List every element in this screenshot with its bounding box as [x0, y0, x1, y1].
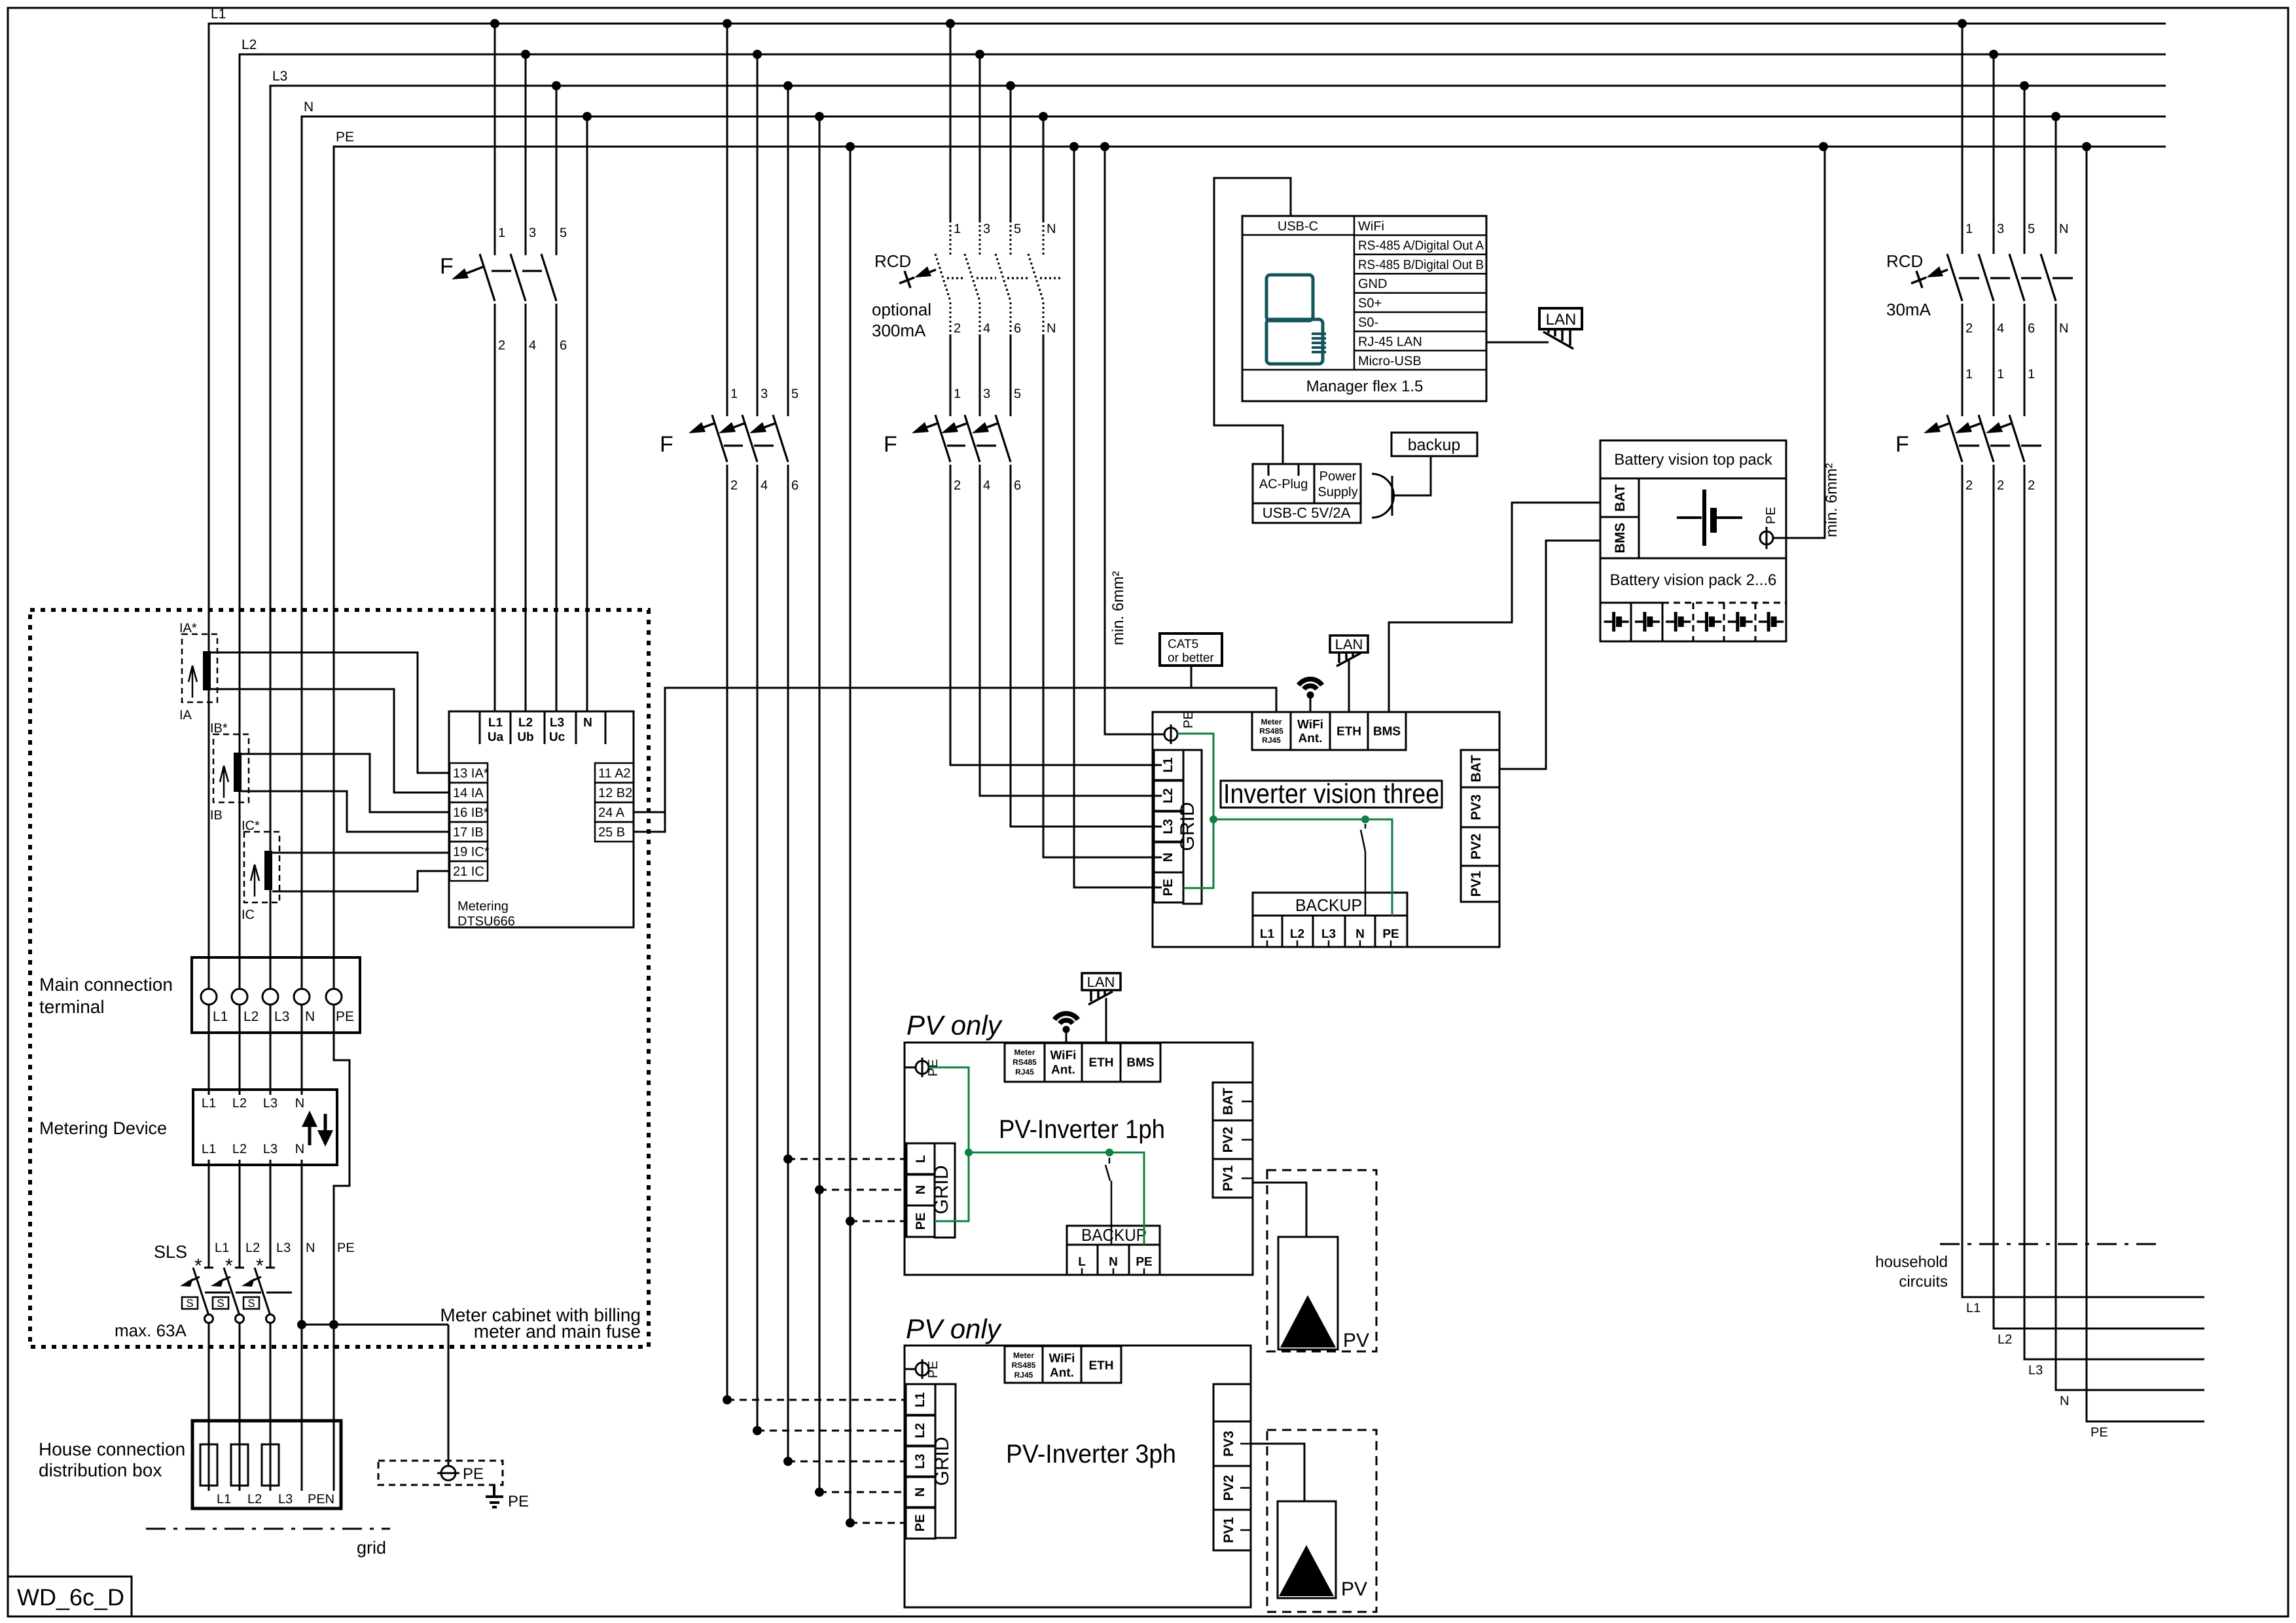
metering device stub [270, 1090, 272, 1095]
svg-text:RS485: RS485 [1013, 1058, 1037, 1067]
SLS output circle [266, 1315, 275, 1323]
svg-text:30mA: 30mA [1886, 300, 1931, 319]
svg-text:3: 3 [761, 387, 768, 401]
wire RCD1 L3 to F3 [1010, 336, 1012, 416]
PV3ph top cell [1213, 1384, 1251, 1421]
CT IC dashed box [244, 832, 279, 902]
svg-text:RJ-45 LAN: RJ-45 LAN [1358, 334, 1422, 349]
svg-text:L3: L3 [276, 1241, 291, 1255]
junction bond N [297, 1320, 306, 1329]
svg-text:RCD: RCD [874, 251, 911, 271]
PV3ph GRID PE cell [906, 1507, 935, 1539]
label Inverter vision three [1221, 781, 1442, 808]
svg-text:meter and main fuse: meter and main fuse [474, 1321, 641, 1342]
wire L1 bus [209, 24, 2166, 989]
svg-text:PE: PE [926, 1361, 941, 1378]
house connection box [192, 1421, 341, 1508]
battery top pack title divider [1600, 478, 1786, 480]
PV panel 2 [1278, 1501, 1336, 1598]
svg-text:S0-: S0- [1358, 315, 1378, 330]
wire RCD1 dotted out [1010, 302, 1012, 336]
junction on N [2051, 112, 2060, 121]
SLS output circle [236, 1315, 244, 1323]
svg-text:IC*: IC* [242, 819, 260, 833]
IVT GRID N cell [1154, 842, 1183, 872]
metering terminal 11 A2 [595, 763, 634, 783]
svg-text:GRID: GRID [931, 1437, 953, 1486]
manager LAN icon [1547, 329, 1550, 333]
wire IA* to 13 [211, 652, 450, 773]
svg-text:RS-485 B/Digital Out B: RS-485 B/Digital Out B [1358, 258, 1484, 272]
wire IVT ETH to LAN [1348, 660, 1350, 712]
junction on L3 [552, 81, 561, 90]
IVT BACKUP box [1253, 893, 1407, 916]
svg-text:BMS: BMS [1126, 1056, 1154, 1070]
svg-text:distribution box: distribution box [39, 1460, 162, 1480]
svg-text:Power: Power [1319, 469, 1357, 484]
metering terminal 13 IA* [450, 763, 488, 783]
svg-text:4: 4 [983, 321, 990, 336]
manager row divider [1354, 234, 1486, 236]
svg-text:AC-Plug: AC-Plug [1259, 477, 1308, 491]
breaker F3 [935, 415, 950, 462]
svg-text:L3: L3 [278, 1492, 293, 1507]
svg-text:L3: L3 [263, 1096, 278, 1111]
svg-text:L3: L3 [2028, 1363, 2043, 1378]
manager row divider [1354, 292, 1486, 294]
IVT GRID PE cell [1154, 872, 1183, 902]
svg-text:N: N [913, 1488, 927, 1497]
svg-text:PE: PE [913, 1514, 927, 1532]
svg-text:21 IC: 21 IC [453, 865, 484, 879]
svg-text:24 A: 24 A [598, 806, 625, 820]
svg-text:L2: L2 [247, 1492, 262, 1507]
PV3ph PV1 cell [1213, 1510, 1251, 1550]
svg-text:RJ45: RJ45 [1015, 1067, 1034, 1077]
svg-text:3: 3 [529, 226, 536, 240]
PV3ph PV2 cell [1213, 1466, 1251, 1510]
svg-text:2: 2 [1965, 478, 1973, 493]
wire through main terminal [239, 957, 241, 989]
wire F3 L3 to GRID L3 [1011, 465, 1162, 827]
svg-text:1: 1 [1997, 367, 2004, 382]
manager meter icon [1266, 275, 1313, 321]
SLS contact tick [204, 1267, 213, 1269]
svg-text:L2: L2 [1290, 927, 1304, 941]
PV1ph BACKUP cells [1067, 1245, 1160, 1275]
wire L2 drop right [1993, 54, 1995, 254]
svg-text:5: 5 [791, 387, 798, 401]
svg-text:L2: L2 [518, 716, 533, 730]
wire F3 L1 to GRID L1 [950, 465, 1162, 765]
svg-text:16 IB*: 16 IB* [453, 806, 489, 820]
svg-text:Ant.: Ant. [1051, 1063, 1075, 1077]
svg-text:L2: L2 [242, 37, 257, 52]
svg-text:optional: optional [872, 300, 931, 319]
main connection terminal box [192, 957, 360, 1033]
svg-text:L1: L1 [202, 1142, 216, 1156]
wire L3 drop to F1 [556, 86, 558, 255]
PV1ph LAN box [1082, 973, 1121, 990]
svg-text:ETH: ETH [1089, 1056, 1114, 1070]
wire N into house box [301, 1325, 303, 1491]
svg-text:GRID: GRID [931, 1166, 952, 1215]
wire PV1ph green to switch [969, 1152, 1109, 1154]
svg-text:IB: IB [210, 808, 223, 823]
svg-text:PEN: PEN [308, 1492, 334, 1507]
wire 25B to RS485 bus [634, 812, 665, 832]
svg-text:L1: L1 [213, 1009, 228, 1024]
battery pack divider 3 [1693, 603, 1695, 641]
IVT port Meter [1252, 712, 1291, 750]
svg-text:N: N [1355, 927, 1365, 941]
wire L3 to metering device [270, 1033, 272, 1089]
svg-text:2: 2 [954, 478, 961, 493]
wire green to BACKUP PE [1365, 819, 1392, 916]
IVT PE terminal [1153, 734, 1164, 736]
svg-text:PV2: PV2 [1221, 1127, 1236, 1153]
svg-text:1: 1 [954, 222, 961, 236]
wire RCD2 L1 to F4 [1962, 304, 1964, 416]
battery pack cell symbol [1728, 620, 1738, 623]
IVT GRID column [1183, 750, 1202, 904]
svg-text:L1: L1 [202, 1096, 216, 1111]
svg-text:PV only: PV only [906, 1010, 1003, 1041]
svg-text:Battery vision pack 2...6: Battery vision pack 2...6 [1610, 571, 1777, 589]
SLS linkage [266, 1292, 292, 1294]
wire 24A to RS485 bus [634, 688, 1276, 812]
svg-text:N: N [295, 1142, 304, 1156]
wire L1 drop to F2 [726, 24, 728, 416]
svg-text:L1: L1 [913, 1392, 927, 1407]
svg-text:L3: L3 [274, 1009, 289, 1024]
wire IB to 17 [242, 791, 450, 832]
svg-text:1: 1 [1965, 222, 1973, 236]
PV3ph GRID column [935, 1384, 956, 1538]
wire F2 out L1 down [726, 465, 728, 1400]
PV1ph port BMS [1121, 1043, 1160, 1082]
CT IC arrow [254, 865, 256, 897]
PV1ph GRID PE cell [906, 1205, 935, 1237]
PV3ph port ETH [1081, 1346, 1121, 1383]
metering terminal 14 IA [450, 783, 488, 802]
wire F4 L2 to household [1994, 465, 2204, 1329]
junction on L3 [2020, 81, 2029, 90]
svg-text:6: 6 [1014, 478, 1021, 493]
wire F3 L2 to GRID L2 [980, 465, 1162, 796]
wire N drop to metering [586, 116, 588, 711]
wire L1 drop right [1962, 24, 1964, 254]
junction on PE [1100, 142, 1109, 151]
CT IA core [203, 651, 211, 690]
IVT NPE relay [1365, 824, 1367, 829]
tap dot 3ph L3 [783, 1457, 793, 1466]
svg-text:Main connection: Main connection [39, 974, 173, 995]
svg-text:6: 6 [791, 478, 798, 493]
inverter vision three box [1153, 712, 1499, 947]
battery pack divider 2 [1662, 603, 1664, 641]
wire L2 to SLS [239, 1165, 241, 1267]
wire SLS out [208, 1323, 210, 1421]
grid separator line [146, 1528, 390, 1530]
svg-text:PE: PE [914, 1213, 928, 1230]
metering terminal 21 IC [450, 861, 488, 881]
svg-text:L2: L2 [232, 1096, 247, 1111]
svg-text:2: 2 [1965, 321, 1973, 336]
svg-text:6: 6 [1014, 321, 1021, 336]
svg-text:L1: L1 [488, 716, 503, 730]
main terminal circle [201, 989, 217, 1005]
wire L1 to metering device [208, 1033, 210, 1089]
svg-text:L2: L2 [1998, 1332, 2012, 1347]
PV1ph PV1 cell [1213, 1159, 1253, 1198]
PV panel 1 [1278, 1237, 1338, 1349]
svg-text:L1: L1 [1161, 757, 1175, 772]
svg-text:F: F [660, 432, 673, 457]
wire RCD1 dotted stub [1010, 225, 1012, 255]
metering top terminal divider [575, 711, 577, 744]
svg-text:N: N [2060, 1394, 2069, 1408]
SLS arrow [219, 1277, 230, 1282]
svg-text:Battery vision top pack: Battery vision top pack [1614, 451, 1772, 469]
wire tap N dashed [819, 1189, 906, 1191]
svg-text:F: F [440, 254, 454, 279]
svg-text:4: 4 [761, 478, 768, 493]
battery pack divider 5 [1755, 603, 1757, 641]
PV1ph BAT cell [1213, 1082, 1253, 1120]
wire RCD1 dotted stub [979, 225, 981, 255]
breaker F4 [1947, 415, 1962, 462]
battery pack divider 4 [1723, 603, 1725, 641]
wire tap 3ph PE dashed [850, 1522, 906, 1524]
breaker F2 [712, 415, 727, 462]
svg-text:N: N [914, 1185, 928, 1194]
metering terminal 17 IB [450, 822, 488, 842]
junction on N [583, 112, 592, 121]
svg-text:Ant.: Ant. [1050, 1366, 1074, 1380]
SLS blade [193, 1268, 209, 1315]
junction on PE [846, 142, 855, 151]
wire IVT PE green [1177, 734, 1213, 888]
battery cell symbol [1677, 516, 1702, 519]
wire L2 to metering device [239, 1033, 241, 1089]
svg-text:IB*: IB* [210, 721, 228, 736]
svg-text:L3: L3 [913, 1454, 927, 1469]
svg-text:WiFi: WiFi [1297, 718, 1323, 732]
svg-text:GND: GND [1358, 277, 1387, 291]
wire N drop right [2055, 116, 2057, 254]
battery pack cell symbol [1635, 620, 1645, 623]
IVT PV3 cell [1461, 787, 1499, 827]
main terminal circle [232, 989, 247, 1005]
meter cabinet dashed box [30, 610, 649, 1347]
wire bond to PE circle [448, 1325, 450, 1467]
svg-text:PV only: PV only [906, 1313, 1003, 1344]
CT IB dashed box [213, 734, 249, 802]
svg-text:3: 3 [983, 387, 990, 401]
svg-text:IA: IA [179, 708, 192, 722]
metering device stub [239, 1090, 241, 1095]
manager row divider [1354, 254, 1486, 256]
wire F1 out 2 to metering [494, 304, 496, 711]
wire L3 drop right [2024, 86, 2026, 254]
CT IB core [234, 753, 242, 792]
metering device down arrow [324, 1114, 327, 1130]
svg-text:max. 63A: max. 63A [115, 1321, 187, 1340]
metering terminal 24 A [595, 802, 634, 822]
svg-text:L2: L2 [232, 1142, 247, 1156]
wire L2 drop to RCD1 [979, 54, 981, 223]
PV3ph GRID L2 cell [906, 1415, 935, 1446]
wire tap 3ph L3 dashed [788, 1461, 906, 1463]
wire F2 out L3 down [787, 465, 789, 1461]
manager flex box [1242, 216, 1486, 401]
svg-text:S: S [247, 1297, 255, 1310]
junction on L1 [490, 19, 499, 28]
svg-text:4: 4 [529, 338, 536, 353]
svg-text:L2: L2 [243, 1009, 259, 1024]
wire tap 3ph N dashed [819, 1491, 906, 1493]
svg-text:PE: PE [1764, 507, 1778, 524]
metering terminal 12 B2 [595, 783, 634, 802]
svg-text:RJ45: RJ45 [1262, 736, 1281, 745]
CAT5 box [1160, 633, 1222, 666]
wire L2 bus [240, 54, 2166, 989]
svg-text:terminal: terminal [39, 997, 105, 1017]
svg-text:min. 6mm²: min. 6mm² [1109, 571, 1127, 645]
wire L3 to SLS [270, 1165, 272, 1267]
battery pack cells top edge [1600, 602, 1662, 604]
IVT BAT cell [1461, 750, 1499, 787]
wire N through SLS area [301, 1165, 303, 1325]
svg-text:14 IA: 14 IA [453, 786, 484, 800]
AC plug pin stub 1 [1268, 464, 1270, 476]
battery BMS cell [1600, 517, 1639, 558]
manager row divider [1354, 312, 1486, 313]
wire L2 drop to F2 [757, 54, 759, 416]
svg-text:PV: PV [1343, 1330, 1369, 1351]
svg-text:12 B2: 12 B2 [598, 786, 632, 800]
battery BAT cell [1600, 478, 1639, 517]
svg-text:PV1: PV1 [1221, 1517, 1236, 1543]
IVT GRID L3 cell [1154, 811, 1183, 842]
metering terminal 16 IB* [450, 802, 488, 822]
PV inverter 1ph box [905, 1043, 1253, 1275]
breaker RCD2 30mA [1947, 254, 1962, 301]
svg-text:L2: L2 [245, 1241, 260, 1255]
svg-text:N: N [1161, 853, 1175, 862]
CT IC core [264, 851, 272, 890]
junction on L2 [521, 50, 530, 59]
PV1ph wifi antenna [1063, 1026, 1070, 1033]
wire PV1 to panel [1252, 1183, 1306, 1237]
svg-text:Ant.: Ant. [1299, 732, 1323, 745]
wire IB* to 16 [242, 754, 450, 812]
svg-text:RCD: RCD [1886, 251, 1923, 271]
svg-text:Micro-USB: Micro-USB [1358, 354, 1422, 368]
junction on PE [1069, 142, 1079, 151]
svg-text:BMS: BMS [1373, 725, 1401, 739]
wire IC to 21 [272, 871, 450, 891]
AC plug pin stub 2 [1298, 464, 1300, 476]
household dash-dot line [1940, 1243, 2163, 1245]
wire F2 out L2 down [757, 465, 759, 1431]
svg-text:GRID: GRID [1177, 802, 1198, 851]
manager divider vertical [1354, 216, 1355, 370]
svg-text:N: N [2059, 321, 2068, 336]
svg-text:backup: backup [1408, 436, 1461, 454]
metering device box [193, 1090, 337, 1165]
IVT wifi antenna [1307, 692, 1314, 699]
tap dot L [783, 1154, 793, 1164]
svg-text:RS485: RS485 [1259, 726, 1283, 736]
svg-text:PV-Inverter 3ph: PV-Inverter 3ph [1006, 1440, 1176, 1469]
svg-text:BAT: BAT [1221, 1088, 1236, 1115]
metering box DTSU666 [449, 711, 634, 927]
svg-text:PE: PE [1181, 711, 1196, 728]
PV3ph PV3 cell [1213, 1421, 1251, 1466]
wire PV1ph ETH to LAN [1105, 998, 1107, 1043]
plug socket arc [1372, 474, 1394, 518]
wire N PE bond [302, 1324, 448, 1326]
svg-text:House connection: House connection [39, 1439, 185, 1459]
wire N to GRID N [1043, 336, 1162, 857]
wire L2 drop to F1 [525, 54, 527, 255]
svg-text:L: L [1078, 1255, 1086, 1269]
metering device up arrow [308, 1122, 312, 1145]
svg-text:RS485: RS485 [1012, 1361, 1036, 1370]
junction on L1 [946, 19, 955, 28]
svg-text:Ub: Ub [517, 730, 533, 744]
PV3ph GRID L3 cell [906, 1446, 935, 1477]
svg-text:BACKUP: BACKUP [1295, 895, 1362, 915]
wire IA to 14 [211, 689, 450, 793]
junction on L2 [1989, 50, 1998, 59]
svg-text:CAT5: CAT5 [1168, 637, 1198, 651]
wire L3 drop to RCD1 [1010, 86, 1012, 223]
junction on N [815, 112, 824, 121]
svg-text:1: 1 [1965, 367, 1973, 382]
svg-text:min. 6mm²: min. 6mm² [1823, 463, 1840, 537]
wire PE drop PV area [850, 147, 852, 1523]
svg-text:2: 2 [2028, 478, 2035, 493]
PV3ph port WiFi [1043, 1346, 1081, 1383]
wire RCD2 L3 to F4 [2024, 304, 2026, 416]
fuse [200, 1444, 217, 1486]
wire PE to household [2087, 147, 2204, 1421]
CT IA arrow [192, 666, 194, 698]
svg-text:BMS: BMS [1613, 523, 1628, 554]
wire through fuse [208, 1421, 210, 1491]
manager row divider [1354, 330, 1486, 332]
wire through fuse [239, 1421, 241, 1491]
svg-text:or better: or better [1168, 651, 1214, 665]
wire SLS out [239, 1323, 241, 1421]
PV1ph GRID N cell [906, 1174, 935, 1205]
svg-text:PE: PE [2090, 1425, 2108, 1440]
battery pack divider 1 [1630, 603, 1632, 641]
junction green PE branch [1210, 815, 1217, 823]
PV1ph PV2 cell [1213, 1120, 1253, 1159]
svg-text:Meter: Meter [1014, 1048, 1035, 1057]
PV1ph port ETH [1082, 1043, 1121, 1082]
svg-text:5: 5 [1014, 387, 1021, 401]
wire L1 to SLS [208, 1165, 210, 1267]
svg-text:4: 4 [983, 478, 990, 493]
junction on L3 [1006, 81, 1015, 90]
PV1ph BACKUP box [1067, 1226, 1160, 1245]
SLS S box [213, 1297, 228, 1309]
